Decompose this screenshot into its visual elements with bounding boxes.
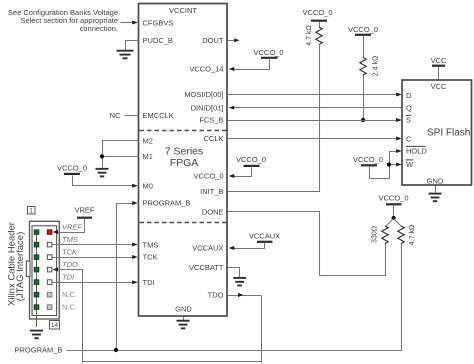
svg-text:VCC: VCC [431,82,447,91]
connector J1 outer body [30,221,60,319]
wire junction to R3 [386,219,394,227]
junction R3/R4 [392,216,396,220]
svg-text:TMS: TMS [62,235,78,244]
wire R2 to FCS_B net [363,76,365,121]
svg-text:(JTAG Interface): (JTAG Interface) [15,232,26,302]
ground PUDC_B [117,51,134,59]
ground M1/M2 [96,169,109,177]
svg-text:FPGA: FPGA [170,157,199,169]
svg-text:VREF: VREF [62,222,82,231]
wire TCK [53,255,138,259]
svg-text:DIN/D[01]: DIN/D[01] [191,103,224,112]
wire INIT_B riser [228,45,320,192]
svg-text:GND: GND [427,177,444,186]
wire branch to W [390,163,402,167]
svg-text:VCCO_0: VCCO_0 [193,172,223,181]
svg-text:VCCAUX: VCCAUX [249,232,280,241]
FPGA U1 block outline [139,4,228,317]
svg-text:VCCO_14: VCCO_14 [189,65,223,74]
wire VCC to SPI flash [438,67,440,81]
wire VCCO_0 into FPGA VCCO_0 pin [229,168,252,178]
svg-text:1: 1 [29,208,33,215]
svg-text:NC: NC [110,111,121,120]
power VCCO_0 INIT_B pullup [302,8,332,21]
connector J1 inner shroud [32,226,57,316]
svg-text:TDI: TDI [62,272,74,281]
svg-text:connection.: connection. [80,24,118,33]
power VCCAUX [249,232,280,242]
svg-text:W: W [406,160,414,169]
FPGA title 7 Series FPGA [165,146,204,170]
wire MOSI/D[00] to D [228,93,402,97]
wire CCLK to C [228,137,402,141]
note: see configuration banks voltage select [8,8,118,33]
svg-text:TCK: TCK [62,247,78,256]
svg-text:4.7 kΩ: 4.7 kΩ [409,225,416,245]
power VCCO_0 for HOLD/W [353,155,383,165]
power VCCO_0 right-side pin [236,155,266,166]
svg-text:M1: M1 [143,152,153,161]
wire DIN/D[01] from Q [229,106,403,110]
svg-text:330Ω: 330Ω [372,226,379,243]
svg-text:INIT_B: INIT_B [200,187,223,196]
wire SPI GND to ground [435,186,437,193]
wire net PROGRAM_B [67,350,402,352]
wire junction to R4 [394,219,402,227]
svg-text:S: S [406,116,411,125]
power VCCO_0 FCS_B pullup [348,25,378,35]
svg-text:HOLD: HOLD [406,147,427,156]
svg-text:FCS_B: FCS_B [199,116,223,125]
wire PROGRAM_B pin riser [117,201,138,350]
svg-text:M0: M0 [143,181,153,190]
resistor R1 4.7k INIT_B pullup [316,27,322,45]
wire TDI [53,280,138,284]
J1 signal pin squares [47,242,52,284]
wire DOUT output arrow [228,38,240,42]
svg-text:VCCO_0: VCCO_0 [353,155,383,164]
wire M2 to ground [103,141,139,168]
wire FCS_B to S [228,118,402,122]
junction HOLD/W [387,162,391,166]
power VREF [74,206,94,218]
junction PROGRAM_B riser [114,348,118,352]
svg-text:CFGBVS: CFGBVS [143,19,174,28]
svg-text:TDO: TDO [62,260,78,269]
wire VCCAUX into FPGA [229,243,265,250]
wire NC to EMCCLK [125,115,139,117]
connector J1 Xilinx cable header caption [7,222,27,306]
svg-text:2.4 kΩ: 2.4 kΩ [373,56,380,76]
FPGA section divider 1 [140,130,227,132]
junction FCS_B / R2 [361,118,365,122]
svg-text:14: 14 [51,322,59,329]
svg-text:VCCO_0: VCCO_0 [302,8,332,17]
resistor R2 2.4k FCS_B pullup [360,58,366,76]
wire J1 ground column [36,232,38,327]
wire TMS [53,243,138,247]
ground FPGA GND [177,317,190,329]
svg-text:VCCAUX: VCCAUX [192,244,223,253]
svg-text:VCC: VCC [431,56,447,65]
wire DONE to R3 [228,212,386,276]
svg-text:Q: Q [406,104,412,113]
power VCC SPI flash [431,56,447,66]
wire VREF to pin 2 [53,219,85,234]
svg-text:TMS: TMS [143,241,159,250]
J1 pin 2 VREF square (red) [47,230,52,235]
svg-text:VCCINT: VCCINT [169,6,197,15]
svg-text:TDI: TDI [143,278,155,287]
FPGA section divider 2 [140,222,227,224]
ground J1 [30,331,43,339]
svg-text:4.7 kΩ: 4.7 kΩ [306,25,313,45]
svg-text:C: C [406,134,412,143]
svg-text:VCCO_0: VCCO_0 [236,155,266,164]
svg-text:VCCO_0: VCCO_0 [253,48,283,57]
wire note arrow to CFGBVS [121,21,138,25]
svg-text:PUDC_B: PUDC_B [143,36,173,45]
svg-text:7 Series: 7 Series [165,146,204,158]
svg-text:VCCO_0: VCCO_0 [378,194,408,203]
svg-text:GND: GND [175,305,192,314]
pin 1 marker box [28,207,36,215]
svg-text:M2: M2 [143,136,153,145]
connector J1 key notch [26,261,30,277]
junction M1/M2 [100,154,104,158]
power VCCO_0 for M0 [57,164,87,174]
svg-text:SPI Flash: SPI Flash [427,127,470,138]
wire VCCO_0 to R1 [319,22,321,28]
power VCCO_0 DONE/PROGRAM pullups [378,194,408,205]
svg-text:PROGRAM_B: PROGRAM_B [15,346,63,355]
power VCCO_0 for VCCO_14 [253,48,283,58]
svg-text:PROGRAM_B: PROGRAM_B [143,199,191,208]
svg-text:MOSI/D[00]: MOSI/D[00] [184,90,223,99]
wire M0 from VCCO_0 [73,176,138,188]
resistor R4 4.7k PROGRAM_B pullup [398,226,404,244]
svg-text:VCCO_0: VCCO_0 [57,164,87,173]
wire VCCO_0 to R2 [363,36,365,58]
wire R4 to PROGRAM_B net [401,244,403,351]
svg-text:TDO: TDO [208,291,224,300]
J1 pin name labels [62,222,82,311]
resistor R3 330 DONE pullup [382,226,388,244]
svg-text:VREF: VREF [74,206,94,215]
SPI left pin labels [406,91,428,169]
svg-text:CCLK: CCLK [203,134,223,143]
svg-text:VCCBATT: VCCBATT [189,263,224,272]
SPI Flash U2 block outline [402,80,472,185]
FPGA left pin labels [143,19,191,287]
wire VCCO_0 to junction [393,206,395,219]
ground SPI flash [429,194,442,202]
svg-text:DOUT: DOUT [202,36,224,45]
svg-text:DONE: DONE [202,207,224,216]
svg-text:VCCO_0: VCCO_0 [348,25,378,34]
pin 14 marker box [50,321,60,330]
svg-text:TCK: TCK [143,253,158,262]
svg-text:N.C.: N.C. [62,303,77,312]
FPGA right pin labels [184,36,224,300]
ground VCCBATT [233,278,246,286]
wire VCCO_0 to HOLD [370,149,402,178]
svg-text:EMCCLK: EMCCLK [143,111,174,120]
wire M1 [103,156,139,158]
wire VCCBATT to ground [228,268,240,278]
J1 N.C. pin squares [47,292,52,309]
wire PUDC_B to ground [126,41,139,50]
svg-text:D: D [406,91,412,100]
wire VCCO_14 from VCCO_0 [229,59,270,71]
wire TDO return loop [53,268,262,362]
svg-text:N.C.: N.C. [62,290,77,299]
J1 pin squares left column (GND pins) [34,230,39,310]
